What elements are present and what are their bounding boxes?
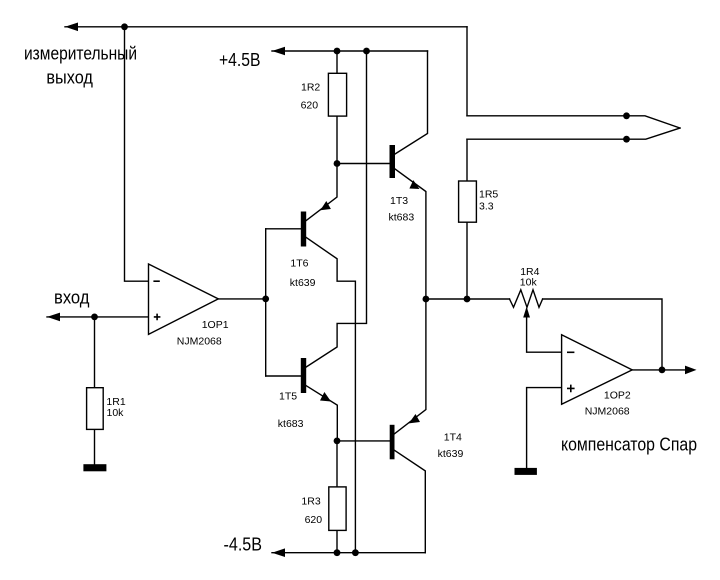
svg-text:3.3: 3.3 (479, 201, 494, 213)
transistor 1T4 bar (390, 425, 395, 460)
svg-text:NJM2068: NJM2068 (585, 406, 630, 418)
wire R1 top (94, 317, 96, 388)
wire T3 base (337, 163, 390, 165)
svg-text:1OP2: 1OP2 (604, 389, 631, 401)
wire R4 tap to op-amp U2 inverting input (527, 316, 562, 352)
wire R2 top (336, 51, 338, 73)
svg-text:1T5: 1T5 (279, 391, 297, 403)
svg-text:kt639: kt639 (438, 448, 464, 460)
svg-text:компенсатор Спар: компенсатор Спар (561, 434, 697, 454)
wire op-amp U2 non-inverting input to ground (527, 388, 562, 468)
wire op-amp U2 output (632, 369, 686, 371)
svg-text:-4.5В: -4.5В (224, 535, 263, 555)
svg-text:измерительный: измерительный (24, 44, 137, 64)
wire T5 emitter to node (306, 386, 337, 441)
node: 1T4 base / 1T5 emitter / 1R3 (334, 438, 341, 445)
svg-text:1R3: 1R3 (301, 495, 320, 507)
wire op-amp U1 output (218, 298, 265, 300)
arrow left +4.5V (272, 47, 285, 56)
arrow left top rail (65, 23, 78, 32)
junction: 1OP2 output / feedback (659, 367, 666, 374)
node: 1T3 base / 1T6 emitter / 1R2 (334, 160, 341, 167)
wire fork lower (467, 128, 680, 139)
svg-text:620: 620 (305, 514, 323, 526)
wire R2 bottom to node T3 base (336, 116, 338, 163)
svg-text:вход: вход (54, 287, 90, 307)
resistor 1R5 (459, 181, 477, 222)
svg-text:10k: 10k (107, 407, 125, 419)
transistor 1T3 bar (390, 145, 396, 178)
svg-text:kt683: kt683 (389, 212, 415, 224)
transistor 1T5 bar (301, 358, 306, 393)
resistor R4 zigzag (510, 290, 543, 308)
wire feedback vertical to op-amp U1 inverting input (125, 27, 149, 281)
junction: measurement rail / feedback to 1OP1 (121, 23, 128, 30)
transistor 1T6 bar (301, 212, 306, 247)
wire T5 collector to +4.5V rail (306, 51, 366, 367)
junction: lower fork pin (623, 136, 630, 143)
arrow T4 emitter (points to bar) (409, 414, 420, 423)
wire T4 base (337, 440, 390, 442)
wire +4.5V rail (272, 50, 428, 52)
node: 1OP1 output / 1T6-1T5 bases (262, 296, 269, 303)
svg-text:+4.5В: +4.5В (219, 50, 261, 70)
resistor 1R1 (87, 388, 104, 430)
op-amp 1OP1 (149, 264, 219, 334)
junction: +4.5V rail / 1T5 collector branch (363, 48, 370, 55)
arrow right U2 output (685, 366, 697, 375)
svg-text:1R5: 1R5 (479, 189, 498, 201)
svg-text:620: 620 (301, 100, 319, 112)
arrow left -4.5V (272, 548, 285, 557)
wire output node horizontal (426, 298, 510, 300)
wire top measurement rail (65, 26, 467, 28)
junction: -4.5V rail / 1T6 collector branch (352, 549, 359, 556)
op-amp U2 minus sign (567, 351, 574, 353)
wire T6 emitter (306, 164, 337, 221)
ground under U2 plus (515, 468, 537, 475)
wire transistor T3 collector to +4.5V (395, 51, 428, 154)
svg-text:1OP1: 1OP1 (202, 319, 229, 331)
svg-text:1T3: 1T3 (390, 195, 408, 207)
arrow T6 emitter (points to bar) (320, 201, 331, 210)
wire T4 emitter (395, 299, 426, 434)
wire -4.5V rail (272, 552, 425, 554)
wire T6 collector to -4.5V rail (306, 238, 355, 553)
wire lower fork down to R5 (466, 139, 468, 181)
svg-text:1T6: 1T6 (290, 258, 308, 270)
junction: input / 1R1 (91, 314, 98, 321)
svg-text:NJM2068: NJM2068 (177, 336, 222, 348)
arrow T3 emitter (409, 180, 419, 189)
wire T3 emitter (395, 169, 426, 299)
arrow left input (47, 313, 60, 322)
wire T5 base (266, 375, 301, 377)
junction: -4.5V rail / 1R3 (334, 549, 341, 556)
resistor 1R3 (329, 487, 346, 531)
wire R3 bottom (336, 530, 338, 552)
svg-text:kt683: kt683 (278, 418, 304, 430)
svg-text:kt639: kt639 (290, 277, 316, 289)
wire U1 output node vertical (265, 229, 267, 376)
wire T6 base (266, 228, 301, 230)
wire fork upper (467, 116, 680, 128)
node: output, 1T3/1T4 emitters (423, 296, 430, 303)
junction: +4.5V rail / 1R2 (334, 48, 341, 55)
wire op-amp U1 non-inverting input (47, 316, 149, 318)
arrow T5 emitter (320, 392, 331, 402)
arrow up R4 tap (523, 307, 530, 318)
wire R5 bottom to node (466, 222, 468, 299)
wire R1 bottom to ground (94, 429, 96, 464)
svg-text:1R2: 1R2 (301, 81, 320, 93)
junction: upper fork pin (623, 112, 630, 119)
svg-text:1T4: 1T4 (444, 431, 462, 443)
op-amp 1OP2 (562, 335, 633, 404)
ground under R1 (83, 464, 106, 471)
wire R3 top (336, 441, 338, 487)
svg-text:10k: 10k (520, 277, 538, 289)
op-amp U1 plus sign (154, 314, 161, 321)
resistor 1R2 (328, 73, 346, 116)
op-amp U1 minus sign (153, 280, 159, 282)
wire node to R4 right side (543, 299, 662, 370)
wire measurement rail down to upper fork (466, 27, 468, 116)
svg-text:выход: выход (46, 68, 93, 88)
op-amp U2 plus sign (567, 385, 575, 393)
junction: output node / 1R5 (464, 296, 471, 303)
wire T4 collector to -4.5V rail (395, 450, 426, 552)
